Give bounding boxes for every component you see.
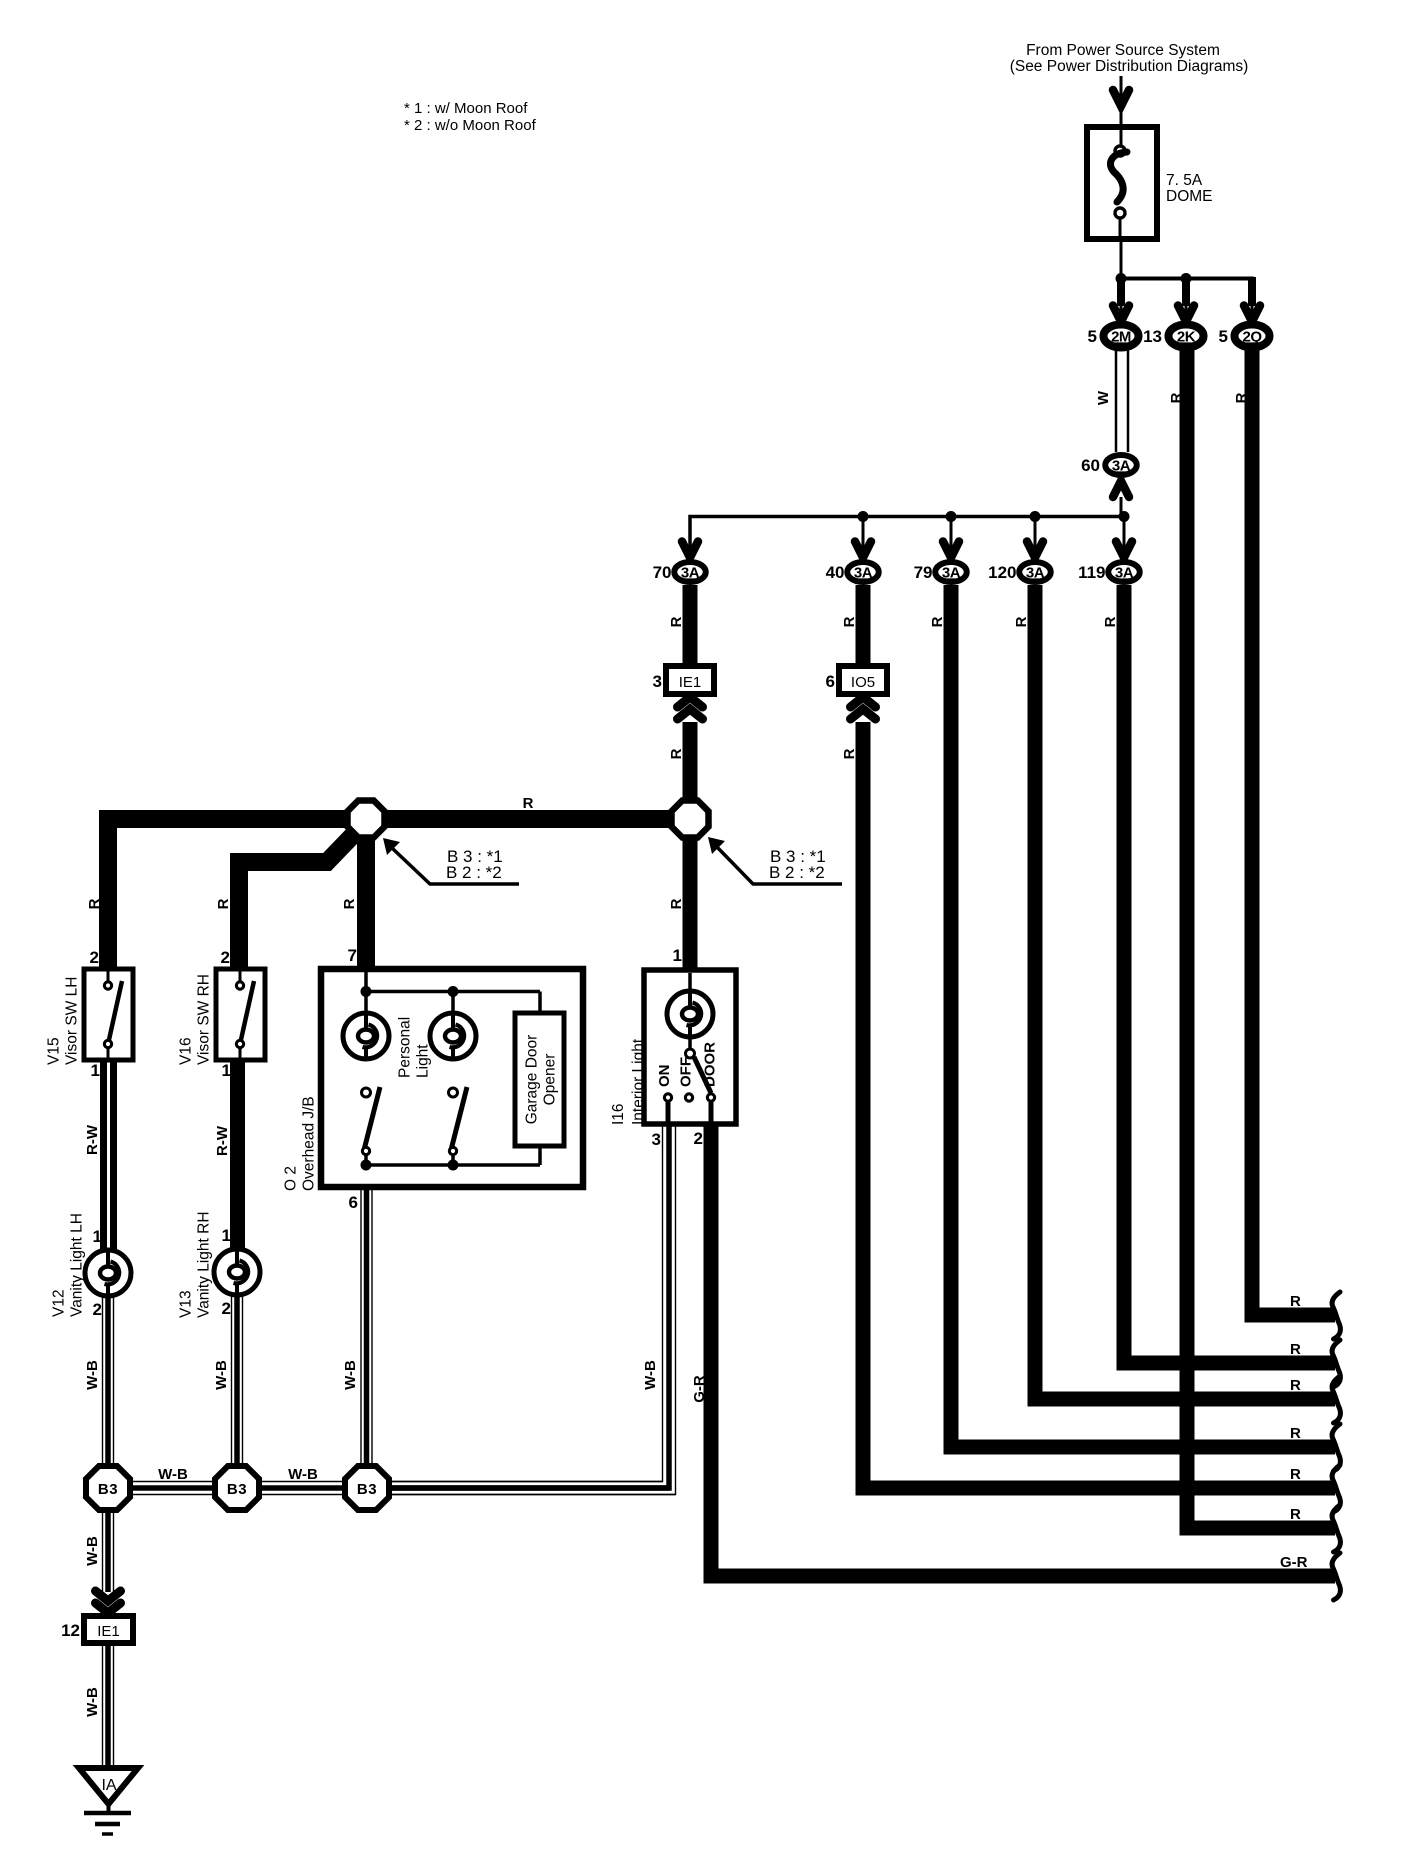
svg-text:1: 1 [222,1061,231,1080]
svg-text:V13: V13 [178,1290,195,1318]
svg-text:IE1: IE1 [97,1623,120,1640]
wire R: 3A(70) to IE1 [683,585,698,666]
svg-text:2: 2 [221,948,230,967]
wire R: branch to V16 [239,834,354,969]
svg-text:V12: V12 [51,1289,68,1317]
svg-text:R: R [929,616,946,627]
wire W-B: IE1 to ground [102,1643,104,1766]
svg-text:2: 2 [222,1299,231,1318]
wire: O2 internal bottom rail [366,1163,540,1167]
svg-text:G-R: G-R [1280,1554,1308,1571]
svg-text:R: R [841,616,858,627]
wire R: J1 down to O2 pin 7 [357,819,375,969]
svg-text:* 1 : w/ Moon Roof: * 1 : w/ Moon Roof [404,100,528,117]
switch V16 Visor SW RH [216,969,265,1060]
svg-text:R: R [523,795,534,812]
svg-text:Light: Light [415,1044,432,1078]
svg-text:Overhead J/B: Overhead J/B [301,1096,318,1191]
wire end hook at y=1363 (R) [1332,1340,1340,1387]
node J2: octagon junction B3/B2 [672,801,709,838]
wire R: 2K down to lower right [1187,350,1335,1528]
svg-text:W-B: W-B [84,1687,101,1717]
wire: rail drop to connector 3A pin 120 [1034,516,1037,557]
svg-text:B 2 : *2: B 2 : *2 [769,863,825,882]
connector 3A pin 40 [847,562,879,582]
svg-text:OFF: OFF [678,1057,695,1087]
svg-text:Opener: Opener [542,1054,559,1106]
svg-text:R: R [1290,1377,1301,1394]
wire R-W: V16 to V13 [230,1060,245,1250]
node: O2 rail junctions [361,986,372,997]
svg-text:W-B: W-B [158,1466,188,1483]
svg-text:W-B: W-B [84,1536,101,1566]
svg-text:W-B: W-B [84,1360,101,1390]
svg-text:120: 120 [988,563,1016,582]
svg-text:40: 40 [826,563,845,582]
svg-text:R: R [1013,616,1030,627]
wire end hook at y=1576 (G-R) [1332,1553,1340,1600]
wire R: 2Q down to lower right [1252,350,1335,1315]
svg-text:1: 1 [91,1061,100,1080]
svg-text:R: R [668,616,685,627]
svg-text:W-B: W-B [642,1360,659,1390]
connector 2Q pin 5 [1235,325,1270,348]
fuse 7.5A DOME [1087,127,1157,239]
wire W-B: I16 pin 3 down and left to B3 chain [392,1124,663,1482]
connector 3A pin 79 [935,562,967,582]
connector 3A pin 70 [674,562,706,582]
svg-text:W-B: W-B [288,1466,318,1483]
wire: rail drop to connector 3A pin 119 [1123,516,1126,557]
node: junction at fuse output [1116,273,1127,284]
wire: rail drop to connector 3A pin 79 [950,516,953,557]
svg-text:60: 60 [1081,456,1100,475]
svg-text:R: R [1168,392,1185,403]
wire R: 3A(119) down to lower right [1124,585,1335,1363]
wire: stub down to connector at x=1252 [1248,277,1256,306]
svg-text:6: 6 [349,1193,358,1212]
I16 switch arm to DOOR [694,1057,711,1093]
junction block connector IO5 pin 6 [839,666,887,694]
switch under lamp 2 [449,1088,458,1097]
svg-text:7: 7 [348,946,357,965]
svg-text:2: 2 [93,1300,102,1319]
personal light lamp 2 [451,992,455,1013]
svg-text:IE1: IE1 [679,674,702,691]
svg-text:(See Power Distribution Diagra: (See Power Distribution Diagrams) [1010,58,1249,75]
wire W: 2M to junction 3A [1115,350,1118,452]
svg-text:12: 12 [61,1621,80,1640]
wire W-B: V12 to B3 [102,1296,104,1470]
wire: rail drop to connector 3A pin 40 [862,516,865,557]
svg-text:R: R [215,898,232,909]
wire R: 3A(120) down to lower right [1035,585,1335,1399]
connector 3A pin 60 [1105,455,1137,475]
wire: stub down to connector at x=1121 [1117,277,1125,306]
node: rail junction x=1035 [1030,511,1041,522]
svg-text:Visor SW LH: Visor SW LH [64,977,81,1065]
svg-text:* 2 : w/o Moon Roof: * 2 : w/o Moon Roof [404,117,537,134]
svg-text:R: R [1290,1341,1301,1358]
wire R: IE1 down to junction J2 [683,722,698,969]
svg-text:V16: V16 [178,1037,195,1065]
junction block connector IE1 pin 12 [84,1616,133,1643]
node B3 junction 3 [345,1466,389,1510]
switch V15 Visor SW LH [84,969,133,1060]
svg-text:R: R [668,748,685,759]
wire end hook at y=1447 (R) [1332,1424,1340,1471]
node: rail junction x=1124 [1119,511,1130,522]
svg-text:13: 13 [1143,327,1162,346]
svg-text:R: R [1290,1293,1301,1310]
svg-text:R: R [1290,1506,1301,1523]
svg-text:1: 1 [93,1227,102,1246]
connector 3A pin 119 [1108,562,1140,582]
wire R: 3A(79) down to lower right [951,585,1335,1447]
switch under lamp 1 [362,1088,371,1097]
svg-text:R: R [841,748,858,759]
svg-text:W-B: W-B [342,1360,359,1390]
svg-text:R: R [1290,1466,1301,1483]
connector 2K pin 13 [1169,325,1204,348]
connector 3A pin 120 [1019,562,1051,582]
wire: stub down to connector at x=1186 [1182,277,1190,306]
svg-text:1: 1 [673,946,682,965]
wire end hook at y=1488 (R) [1332,1465,1340,1512]
svg-text:79: 79 [914,563,933,582]
svg-text:Personal: Personal [397,1017,414,1078]
garage door opener unit [515,1013,564,1146]
I16 contacts ON OFF DOOR [663,1092,673,1102]
svg-text:119: 119 [1078,563,1105,582]
svg-text:R-W: R-W [214,1125,231,1156]
svg-text:B3: B3 [357,1481,377,1498]
svg-text:2: 2 [90,948,99,967]
wire R: IO5 down to lower right [863,722,1335,1488]
svg-text:I16: I16 [610,1103,627,1125]
svg-text:6: 6 [826,672,835,691]
svg-text:Garage Door: Garage Door [524,1035,541,1125]
wire: O2 internal top rail [364,972,368,992]
svg-text:W: W [1095,390,1112,405]
wire R-W: V15 to V12 [100,1060,107,1251]
svg-text:ON: ON [656,1065,673,1088]
svg-text:R: R [668,898,685,909]
svg-text:70: 70 [653,563,672,582]
svg-text:1: 1 [222,1226,231,1245]
node: junction to 2K [1181,273,1192,284]
wire W-B: B3 down to IE1 pin 12 [102,1512,104,1592]
svg-text:O 2: O 2 [283,1166,300,1191]
junction block connector IE1 pin 3 [666,666,714,694]
wire: R distribution rail [690,517,1124,559]
svg-text:R: R [1102,616,1119,627]
svg-text:B3: B3 [98,1481,118,1498]
node B3 junction 2 [215,1466,259,1510]
svg-text:DOOR: DOOR [702,1042,719,1087]
svg-text:2: 2 [694,1129,703,1148]
svg-text:Vanity Light RH: Vanity Light RH [196,1211,213,1318]
svg-text:R: R [1233,392,1250,403]
wire W-B: V13 to B3 [231,1295,233,1470]
callout arrow for J1 (B3:*1 / B2:*2) [392,848,519,884]
wire: top distribution bus [1121,277,1254,281]
wire R: main trunk with left drop to V15 [108,819,690,969]
svg-text:DOME: DOME [1166,188,1213,205]
svg-text:B3: B3 [227,1481,247,1498]
wire: rail drop to connector 3A pin 70 [689,516,692,557]
svg-text:3: 3 [653,672,662,691]
ground IA [79,1768,138,1804]
callout arrow for J2 (B3:*1 / B2:*2) [717,847,842,884]
wire: feed from power source into fuse [1120,76,1123,151]
node: rail junction x=863 [858,511,869,522]
svg-text:V15: V15 [46,1037,63,1065]
node: rail junction x=951 [946,511,957,522]
svg-text:5: 5 [1219,327,1228,346]
svg-text:3: 3 [652,1130,661,1149]
svg-text:5: 5 [1088,327,1097,346]
svg-text:R: R [341,898,358,909]
svg-text:R: R [86,898,103,909]
svg-text:Vanity Light LH: Vanity Light LH [69,1213,86,1317]
wire G-R: I16 pin 2 down to lower right [711,1124,1335,1576]
svg-text:W-B: W-B [213,1360,230,1390]
svg-text:Visor SW RH: Visor SW RH [196,974,213,1065]
svg-text:7. 5A: 7. 5A [1166,172,1203,189]
wire R: 3A(40) to IO5 [856,585,871,666]
lamp assembly I16 Interior Light [644,970,736,1124]
svg-text:IA: IA [101,1777,116,1794]
wire W-B: ground chain between B3 junctions [108,1481,663,1483]
junction box O2 Overhead J/B [321,969,583,1187]
node B3 junction 1 [86,1466,130,1510]
wire: fuse to distribution junction [1120,239,1123,279]
wire end hook at y=1399 (R) [1332,1376,1340,1423]
svg-text:Interior Light: Interior Light [630,1038,647,1125]
connector 2M pin 5 [1104,325,1139,348]
svg-text:G-R: G-R [691,1375,708,1403]
svg-text:IO5: IO5 [851,674,875,691]
wire end hook at y=1528 (R) [1332,1505,1340,1552]
svg-text:B 2 : *2: B 2 : *2 [446,863,502,882]
svg-text:R: R [1290,1425,1301,1442]
svg-text:From Power Source System: From Power Source System [1026,42,1220,59]
personal light lamp 1 [364,992,368,1013]
wire end hook at y=1315 (R) [1332,1292,1340,1339]
node J1: octagon junction B3/B2 [348,801,385,838]
svg-text:R-W: R-W [84,1124,101,1155]
